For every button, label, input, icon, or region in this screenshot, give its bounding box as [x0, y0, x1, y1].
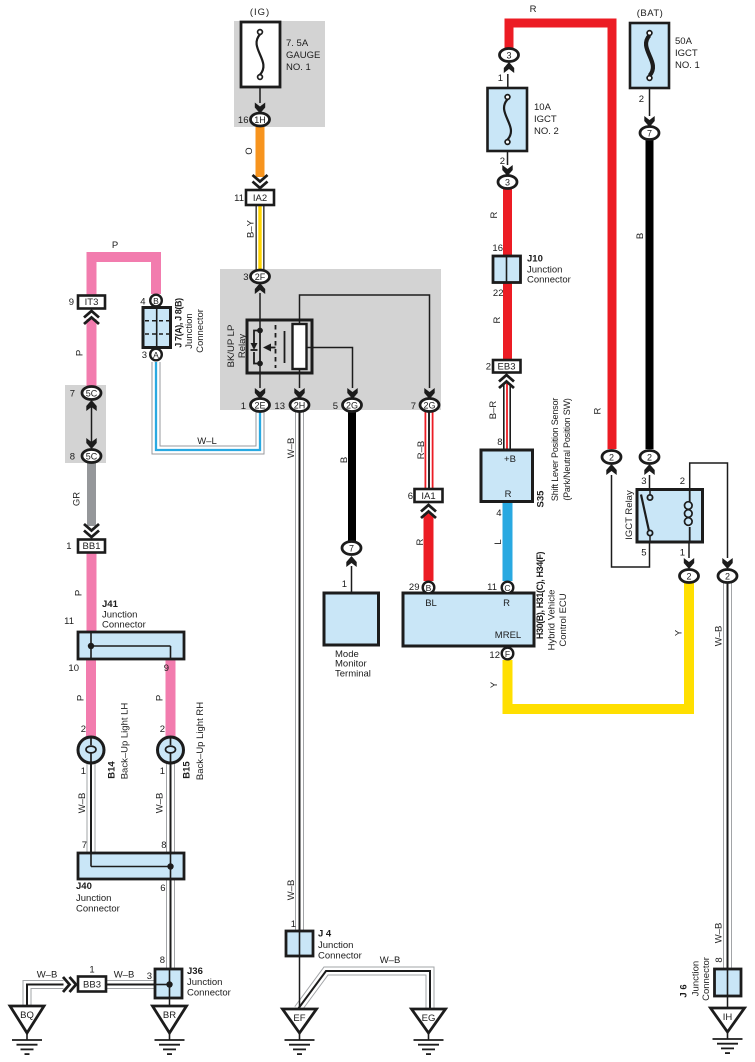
svg-text:Connector: Connector [76, 904, 120, 915]
svg-text:J36: J36 [187, 966, 203, 977]
svg-text:2: 2 [500, 156, 505, 167]
svg-text:1: 1 [66, 541, 71, 552]
svg-text:11: 11 [487, 582, 497, 593]
svg-text:Junction: Junction [76, 893, 111, 904]
svg-text:NO. 2: NO. 2 [534, 126, 559, 137]
svg-text:MREL: MREL [495, 630, 521, 641]
svg-text:8: 8 [70, 452, 75, 463]
svg-text:W–B: W–B [286, 438, 297, 459]
svg-text:J 6: J 6 [679, 984, 690, 997]
svg-text:IGCT: IGCT [675, 48, 698, 59]
svg-text:Junction: Junction [187, 977, 222, 988]
svg-text:7: 7 [411, 401, 416, 412]
svg-text:5C: 5C [86, 452, 98, 462]
svg-text:NO. 1: NO. 1 [286, 62, 311, 73]
svg-text:11: 11 [234, 193, 244, 204]
svg-text:7. 5A: 7. 5A [286, 38, 309, 49]
svg-text:12: 12 [489, 650, 500, 661]
svg-text:10A: 10A [534, 102, 552, 113]
svg-text:10: 10 [68, 663, 79, 674]
svg-text:O: O [244, 147, 255, 154]
svg-text:BK/UP LP: BK/UP LP [226, 325, 237, 368]
svg-text:5: 5 [641, 548, 646, 559]
svg-text:8: 8 [714, 957, 725, 962]
svg-text:+B: +B [504, 454, 516, 465]
svg-text:Connector: Connector [701, 957, 712, 1001]
svg-text:22: 22 [493, 288, 504, 299]
svg-text:Y: Y [674, 629, 685, 636]
svg-text:2G: 2G [423, 401, 435, 411]
svg-text:J41: J41 [102, 599, 119, 610]
svg-text:J40: J40 [76, 881, 92, 892]
svg-text:29: 29 [409, 582, 420, 593]
svg-text:Connector: Connector [102, 620, 146, 631]
svg-text:EG: EG [422, 1013, 436, 1024]
svg-text:13: 13 [274, 401, 285, 412]
svg-text:Connector: Connector [318, 951, 362, 962]
svg-text:L: L [493, 539, 504, 544]
svg-text:W–B: W–B [77, 793, 88, 814]
svg-text:1: 1 [160, 766, 165, 777]
svg-text:NO. 1: NO. 1 [675, 60, 700, 71]
svg-text:2E: 2E [254, 401, 265, 411]
svg-text:(BAT): (BAT) [637, 8, 664, 19]
svg-text:1: 1 [680, 548, 685, 559]
svg-text:9: 9 [164, 663, 169, 674]
svg-text:2F: 2F [255, 272, 266, 282]
svg-text:W–B: W–B [380, 955, 401, 966]
svg-text:1: 1 [241, 401, 246, 412]
svg-text:Relay: Relay [237, 334, 248, 359]
svg-text:11: 11 [64, 616, 74, 627]
svg-text:BQ: BQ [20, 1010, 34, 1021]
svg-text:B: B [153, 296, 159, 306]
svg-text:4: 4 [140, 297, 145, 308]
svg-text:Shift Lever Position Sensor: Shift Lever Position Sensor [550, 398, 560, 501]
svg-text:R: R [503, 598, 510, 609]
svg-text:8: 8 [161, 840, 166, 851]
svg-text:GAUGE: GAUGE [286, 50, 320, 61]
svg-text:B: B [339, 457, 350, 463]
svg-text:3: 3 [147, 971, 152, 982]
svg-text:IT3: IT3 [85, 297, 99, 308]
svg-text:6: 6 [408, 491, 413, 502]
svg-text:EB3: EB3 [498, 362, 516, 373]
svg-text:Junction: Junction [184, 313, 195, 348]
svg-text:W–B: W–B [155, 793, 166, 814]
svg-text:16: 16 [238, 115, 249, 126]
svg-text:B–Y: B–Y [246, 219, 257, 238]
svg-text:Connector: Connector [187, 988, 231, 999]
svg-text:S35: S35 [536, 490, 547, 508]
svg-text:2: 2 [725, 572, 730, 582]
svg-text:B14: B14 [107, 761, 118, 779]
svg-text:R: R [415, 538, 426, 545]
svg-text:P: P [155, 695, 166, 701]
svg-text:P: P [74, 590, 85, 596]
svg-text:IH: IH [723, 1012, 733, 1023]
svg-text:P: P [112, 240, 118, 251]
svg-text:2: 2 [486, 362, 491, 373]
svg-text:Connector: Connector [195, 309, 206, 353]
svg-text:3: 3 [641, 476, 646, 487]
svg-text:IA2: IA2 [253, 193, 267, 204]
svg-text:2: 2 [639, 94, 644, 105]
svg-text:B: B [426, 583, 432, 593]
svg-text:W–L: W–L [197, 436, 217, 447]
svg-text:7: 7 [70, 389, 75, 400]
svg-text:BR: BR [163, 1010, 176, 1021]
svg-text:2: 2 [686, 572, 691, 582]
svg-text:W–B: W–B [114, 970, 135, 981]
svg-text:6: 6 [160, 883, 165, 894]
svg-text:2: 2 [680, 476, 685, 487]
svg-text:R: R [505, 489, 512, 500]
svg-text:BB1: BB1 [83, 541, 101, 552]
svg-text:F: F [505, 649, 510, 659]
svg-text:8: 8 [497, 437, 502, 448]
svg-text:P: P [75, 350, 86, 356]
svg-text:7: 7 [349, 544, 354, 554]
svg-text:1: 1 [291, 919, 296, 930]
svg-text:BL: BL [425, 598, 437, 609]
svg-text:1: 1 [498, 73, 503, 84]
svg-text:Terminal: Terminal [335, 668, 371, 679]
svg-text:(IG): (IG) [250, 7, 270, 18]
svg-text:2: 2 [609, 453, 614, 463]
svg-text:Y: Y [489, 681, 500, 688]
svg-text:2: 2 [81, 724, 86, 735]
svg-text:H30(B), H31(C), H34(F): H30(B), H31(C), H34(F) [535, 551, 545, 639]
svg-text:4: 4 [496, 508, 501, 519]
svg-text:Hybrid Vehicle: Hybrid Vehicle [547, 590, 558, 651]
svg-text:J 4: J 4 [318, 929, 332, 940]
svg-text:8: 8 [160, 955, 165, 966]
svg-text:P: P [76, 695, 87, 701]
svg-text:J10: J10 [527, 254, 543, 265]
svg-text:Control ECU: Control ECU [558, 593, 569, 646]
svg-text:9: 9 [69, 297, 74, 308]
svg-text:3: 3 [142, 350, 147, 361]
svg-text:R–B: R–B [416, 441, 427, 459]
svg-text:Connector: Connector [527, 275, 571, 286]
svg-text:3: 3 [506, 51, 511, 61]
svg-text:R: R [489, 211, 500, 218]
svg-text:3: 3 [505, 178, 510, 188]
svg-text:B–R: B–R [488, 401, 499, 420]
svg-text:R: R [530, 4, 537, 15]
svg-text:W–B: W–B [286, 880, 297, 901]
svg-text:50A: 50A [675, 36, 693, 47]
svg-text:16: 16 [492, 243, 503, 254]
svg-text:W–B: W–B [714, 626, 725, 647]
svg-text:W–B: W–B [37, 970, 58, 981]
svg-text:R: R [593, 407, 604, 414]
svg-text:R: R [492, 316, 503, 323]
svg-text:GR: GR [72, 492, 83, 506]
svg-text:EF: EF [293, 1013, 305, 1024]
svg-text:Back–Up Light LH: Back–Up Light LH [120, 703, 131, 780]
svg-text:B15: B15 [182, 761, 193, 779]
svg-text:7: 7 [82, 840, 87, 851]
svg-text:C: C [504, 583, 510, 593]
svg-text:Junction: Junction [691, 961, 702, 996]
svg-text:2: 2 [160, 724, 165, 735]
svg-text:IGCT: IGCT [534, 114, 557, 125]
svg-text:W–B: W–B [714, 923, 725, 944]
svg-text:1: 1 [89, 965, 94, 976]
svg-text:IA1: IA1 [421, 491, 435, 502]
svg-text:Junction: Junction [318, 940, 353, 951]
svg-text:5C: 5C [86, 389, 98, 399]
svg-text:J 7(A), J 8(B): J 7(A), J 8(B) [174, 298, 184, 348]
svg-text:3: 3 [243, 272, 248, 283]
svg-text:1H: 1H [254, 115, 266, 125]
svg-text:1: 1 [81, 766, 86, 777]
svg-text:2: 2 [647, 453, 652, 463]
svg-text:IGCT Relay: IGCT Relay [624, 490, 635, 540]
svg-text:2H: 2H [294, 401, 306, 411]
svg-text:2G: 2G [346, 401, 358, 411]
svg-text:(Park/Neutral Position SW): (Park/Neutral Position SW) [562, 398, 572, 501]
svg-text:A: A [153, 350, 159, 360]
svg-text:BB3: BB3 [83, 980, 101, 991]
svg-text:5: 5 [333, 401, 338, 412]
svg-text:Back–Up Light RH: Back–Up Light RH [195, 702, 206, 780]
svg-text:1: 1 [342, 579, 347, 590]
svg-text:B: B [635, 233, 646, 239]
svg-text:7: 7 [647, 129, 652, 139]
